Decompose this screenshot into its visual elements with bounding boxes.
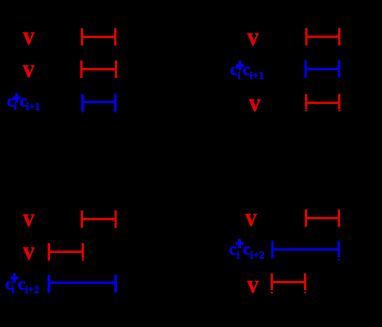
- hopping interval bar c+_i c_i+2 (bottom-right row 2): [271, 241, 340, 261]
- svg-text:i+2: i+2: [250, 250, 264, 261]
- interval bar v (top-right row 1): [305, 28, 340, 46]
- svg-text:v: v: [23, 56, 35, 83]
- site potential label v (top-right row 3): [249, 90, 261, 117]
- svg-text:i: i: [14, 102, 17, 113]
- interval bar v (bottom-right row 1): [305, 209, 340, 227]
- svg-text:v: v: [245, 205, 257, 232]
- site potential label v (bottom-left row 2): [23, 238, 35, 265]
- site potential label v (bottom-right row 1): [245, 205, 257, 232]
- interval bar v (bottom-left row 1): [81, 210, 117, 228]
- site potential label v (top-left row 2): [23, 56, 35, 83]
- hopping operator label c+_i c_i+2 (bottom-right row 2): [229, 239, 264, 261]
- hopping interval bar c+_i c_i+2 (bottom-left row 3): [47, 275, 118, 294]
- svg-text:v: v: [23, 23, 35, 50]
- svg-text:i+1: i+1: [26, 102, 40, 113]
- interval bar v (bottom-left row 2): [48, 243, 85, 261]
- svg-text:i+2: i+2: [25, 285, 39, 296]
- hopping operator label c+_i c_i+2 (bottom-left row 3): [5, 274, 39, 296]
- svg-text:v: v: [247, 24, 259, 51]
- site potential label v (top-right row 1): [247, 24, 259, 51]
- svg-text:i+1: i+1: [250, 71, 264, 82]
- hopping operator label c+_i c_i+1 (top-left row 3): [7, 92, 40, 113]
- svg-text:v: v: [249, 90, 261, 117]
- site potential label v (top-left row 1): [23, 23, 35, 50]
- site potential label v (bottom-right row 3): [247, 272, 259, 299]
- hopping interval bar c+_i c_i+1 (top-left row 3): [81, 94, 118, 113]
- svg-text:i: i: [238, 71, 241, 82]
- hopping operator label c+_i c_i+1 (top-right row 2): [230, 60, 264, 82]
- svg-text:v: v: [23, 238, 35, 265]
- interval bar v (top-left row 2): [80, 60, 117, 77]
- svg-text:v: v: [23, 205, 35, 232]
- svg-text:v: v: [247, 272, 259, 299]
- hopping interval bar c+_i c_i+1 (top-right row 2): [304, 60, 340, 78]
- interval bar v (top-right row 3): [305, 94, 342, 112]
- interval bar v (top-left row 1): [81, 28, 117, 46]
- svg-text:i: i: [12, 285, 15, 296]
- svg-text:i: i: [237, 250, 240, 261]
- site potential label v (bottom-left row 1): [23, 205, 35, 232]
- interval bar v (bottom-right row 3): [270, 273, 307, 293]
